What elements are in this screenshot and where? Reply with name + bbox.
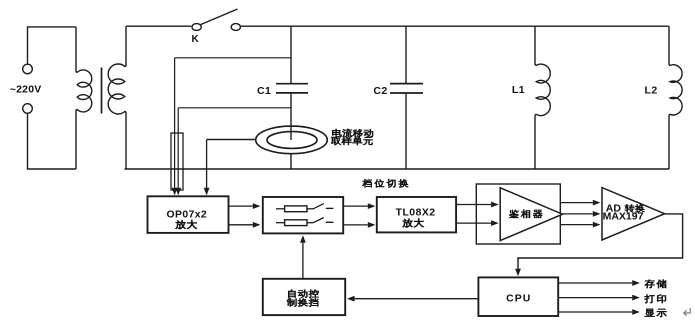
label gear switching: [362, 179, 408, 188]
top bus wire left of switch: [126, 25, 191, 27]
wire toroid tap to OP07: [207, 139, 256, 141]
voltage divider rectangle: [171, 133, 183, 190]
wire source loop: [28, 27, 77, 169]
arrows phase detector to AD converter: [561, 202, 593, 204]
capacitor C2: [390, 26, 423, 169]
label storage: [645, 280, 667, 289]
AD converter triangle MAX197: [602, 188, 665, 240]
wire tap from C1 bottom node: [178, 107, 291, 109]
switch row 2: resistor and contact: [276, 218, 333, 226]
wire tap from top node (under switch): [175, 57, 291, 59]
svg-text:L2: L2: [645, 85, 658, 97]
transformer T1 secondary winding: [108, 26, 126, 169]
gear switch block: [263, 197, 343, 233]
bottom bus wire: [125, 168, 670, 170]
paragraph return mark: [684, 308, 691, 316]
amplifier block TL08X2: [377, 197, 456, 232]
transformer core: [101, 68, 103, 114]
svg-text:K: K: [192, 34, 200, 45]
svg-text:~220V: ~220V: [10, 84, 42, 96]
label print: [645, 294, 666, 303]
label AD convert: [606, 202, 645, 214]
svg-text:TL08X2: TL08X2: [396, 207, 436, 218]
label phase detector: [509, 210, 542, 218]
svg-text:MAX197: MAX197: [603, 210, 644, 222]
arrow CPU to print: [558, 297, 632, 299]
amplifier block OP07x2: [148, 196, 229, 233]
transformer T1 primary winding: [76, 27, 92, 169]
auto gear-shift control block: [263, 279, 345, 315]
arrow CPU to storage: [558, 282, 632, 284]
svg-text:CPU: CPU: [506, 294, 531, 305]
phase detector triangle: [500, 188, 562, 241]
label display: [645, 309, 667, 317]
CPU block: [478, 277, 558, 316]
arrow CPU to display: [558, 311, 632, 313]
capacitor C1: [276, 26, 308, 140]
AC source ~220V terminals: [23, 64, 33, 113]
arrows TL08X2 to phase detector: [456, 204, 491, 206]
arrows switch block to TL08X2: [343, 205, 367, 207]
arrows OP07 to switch block: [229, 205, 253, 207]
inductor L1: [535, 26, 550, 169]
svg-text:L1: L1: [512, 84, 525, 96]
sense wire 2 into OP07: [177, 108, 179, 188]
wire AD converter to CPU: [518, 214, 683, 269]
svg-text:C1: C1: [257, 85, 271, 97]
top bus wire right of switch: [240, 25, 669, 27]
inductor L2: [669, 26, 682, 169]
phase detector outer box: [476, 184, 560, 244]
label current sampling unit: [331, 129, 373, 145]
current sampling toroid: [256, 126, 328, 169]
arrow CPU to auto-control: [355, 298, 479, 300]
arrow auto-control to switch block: [302, 243, 304, 279]
svg-text:C2: C2: [373, 85, 387, 97]
switch row 1: resistor and contact: [276, 204, 333, 212]
svg-text:OP07x2: OP07x2: [167, 210, 208, 221]
switch K: [192, 9, 240, 30]
sense wire 1 into OP07: [174, 58, 176, 188]
